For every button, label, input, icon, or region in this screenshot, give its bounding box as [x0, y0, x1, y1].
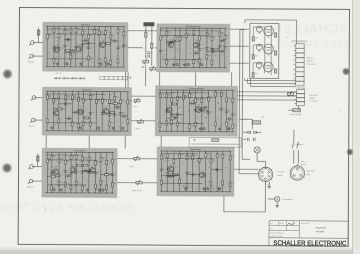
resistor R601: [252, 121, 261, 124]
wire: [38, 97, 42, 99]
capacitor C37: [108, 114, 111, 116]
resistor R95: [58, 158, 60, 162]
wire: [155, 47, 157, 49]
wire: bus: [47, 184, 86, 186]
wire: bus: [48, 33, 105, 35]
wire: branch: [229, 151, 231, 191]
resistor R66: [58, 108, 62, 110]
ground: [275, 204, 278, 207]
terminal strip X1: [293, 44, 304, 86]
capacitor C51: [200, 109, 203, 111]
wire: coupling: [76, 165, 82, 167]
resistor R13: [98, 31, 100, 35]
resistor R112: [111, 159, 113, 163]
capacitor C78 (electrolytic): [102, 189, 104, 191]
resistor R8: [75, 28, 77, 32]
wire: branch: [70, 152, 72, 192]
wire: branch: [98, 27, 100, 67]
resistor R29: [185, 33, 187, 37]
wire: [230, 28, 249, 30]
svg-text:Klangregelung I: Klangregelung I: [186, 25, 202, 28]
svg-text:Tag: Tag: [270, 223, 273, 225]
ground: [267, 185, 270, 188]
svg-text:Lautst.: Lautst.: [132, 105, 138, 108]
wire: 0V rail: [158, 130, 234, 132]
wire: coupling: [167, 176, 174, 178]
wire: [265, 161, 267, 167]
wire: branch: [110, 27, 112, 67]
wire: bus: [162, 58, 200, 60]
wire: branch: [159, 90, 161, 131]
resistor R122: [179, 154, 181, 158]
resistor R56: [101, 99, 103, 103]
label: [309, 94, 318, 103]
resistor R48: [71, 122, 73, 126]
wire: [145, 73, 147, 86]
resistor R2: [53, 28, 55, 32]
transistor Q9: [166, 107, 172, 113]
wire: [257, 131, 261, 133]
capacitor C59: [229, 117, 231, 120]
svg-text:Vorstufe I: Vorstufe I: [81, 23, 91, 26]
resistor R27: [174, 36, 176, 40]
wire: coupling: [187, 174, 199, 176]
svg-text:Netz: Netz: [301, 160, 305, 163]
wire: bus: [48, 58, 93, 60]
capacitor C30: [222, 50, 224, 53]
svg-text:Wechsel: Wechsel: [307, 58, 314, 60]
input jack Bu4: [30, 118, 37, 123]
wire: coupling: [212, 48, 220, 50]
wire: branch: [113, 92, 115, 131]
resistor R34: [206, 33, 208, 37]
wire: [37, 28, 39, 43]
wire: coupling: [65, 52, 76, 54]
capacitor C201: [147, 52, 150, 54]
resistor R134: [229, 156, 231, 160]
wire: branch: [123, 27, 125, 67]
capacitor C80: [160, 169, 163, 171]
wire: branch: [46, 152, 48, 192]
svg-text:SCHALLER ELECTRONIC: SCHALLER ELECTRONIC: [273, 240, 346, 247]
wire: branch: [173, 151, 175, 191]
potentiometer P401: [134, 156, 140, 161]
capacitor C31 (electrolytic): [176, 63, 178, 65]
wire: mid rail: [45, 154, 82, 156]
ground: [172, 63, 175, 66]
resistor R120: [166, 154, 168, 158]
svg-text:Sicherung 0,8A: Sicherung 0,8A: [289, 113, 301, 116]
value labels: [162, 33, 224, 64]
capacitor C15: [67, 38, 69, 41]
resistor R106: [95, 161, 97, 165]
resistor R111: [106, 185, 108, 189]
resistor R101: [75, 155, 77, 159]
resistor R25: [166, 32, 168, 36]
capacitor C43: [65, 102, 67, 105]
wire: coupling: [121, 115, 128, 117]
capacitor C16 (electrolytic): [100, 63, 102, 65]
module board: Klangregelung I: [157, 24, 230, 72]
wire: coupling: [174, 174, 180, 176]
wire: [127, 72, 129, 88]
resistor R76: [189, 94, 191, 98]
input jack Bu3: [31, 96, 38, 101]
wire: [253, 62, 263, 64]
wire: coupling: [167, 42, 175, 44]
potentiometer P402: [136, 180, 142, 185]
capacitor C33 (electrolytic): [200, 63, 202, 65]
svg-text:Vorstufe II: Vorstufe II: [82, 88, 92, 91]
wire: bus: [47, 159, 97, 161]
wire: branch: [53, 91, 55, 130]
resistor R53: [89, 95, 91, 99]
svg-text:50Hz: 50Hz: [307, 174, 311, 176]
wire: [264, 26, 266, 73]
wire: branch: [81, 153, 83, 193]
resistor R26: [166, 60, 168, 64]
resistor R41: [46, 95, 48, 99]
wire: coupling: [65, 38, 71, 40]
resistor R30: [193, 30, 195, 34]
resistor R10: [88, 35, 90, 39]
capacitor C85: [192, 173, 194, 176]
wire: coupling: [220, 40, 225, 42]
wire: [268, 198, 275, 200]
resistor R114: [105, 174, 109, 176]
wire: branch: [166, 90, 168, 131]
resistor R93: [51, 156, 53, 160]
wire: coupling: [202, 106, 209, 108]
svg-text:Benennung: Benennung: [301, 223, 309, 225]
resistor R31: [193, 59, 195, 63]
wire: coupling: [171, 103, 177, 105]
wire: [145, 26, 147, 58]
resistor R5: [64, 30, 66, 34]
wire: +supply rail: [160, 150, 231, 152]
wire: bus: [160, 97, 215, 99]
capacitor C91 (electrolytic): [207, 187, 209, 189]
wire: [230, 62, 249, 64]
wire: mid rail: [160, 30, 219, 32]
input jack Bu6: [28, 179, 35, 184]
capacitor C28: [170, 41, 172, 44]
module board: Vorstufe III: [42, 148, 117, 197]
resistor R37: [211, 60, 213, 64]
resistor R28: [179, 36, 181, 40]
value labels: [165, 92, 231, 126]
ground: [202, 187, 205, 190]
svg-text:Hohen Tiefen: Hohen Tiefen: [132, 190, 142, 192]
resistor R88: [232, 124, 234, 128]
wire: branch: [182, 90, 184, 131]
wire: coupling: [167, 172, 174, 174]
transistor Q1: [54, 47, 60, 53]
wire: branch: [166, 151, 168, 191]
capacitor C87: [176, 173, 178, 176]
resistor R98: [64, 182, 66, 186]
wire: [234, 168, 258, 170]
wire: branch: [166, 28, 168, 67]
wire: branch: [222, 151, 224, 191]
wire: [151, 26, 153, 58]
capacitor C8: [122, 45, 125, 47]
wire: 0V rail: [46, 66, 125, 68]
capacitor C41: [75, 111, 77, 114]
wire: [191, 143, 239, 145]
module board: Vorstufe II: [42, 87, 131, 136]
svg-text:Lautst.: Lautst.: [129, 165, 135, 168]
svg-text:zur Klangregelung: zur Klangregelung: [291, 40, 306, 43]
svg-text:Mischstufe: Mischstufe: [190, 148, 201, 151]
wire: coupling: [72, 111, 78, 113]
resistor R54: [89, 122, 91, 126]
wire: [224, 211, 265, 213]
capacitor C22: [210, 48, 213, 50]
wire: [125, 72, 127, 88]
resistor R128: [205, 153, 207, 157]
wire: branch: [176, 90, 178, 131]
capacitor C18 (electrolytic): [66, 63, 68, 65]
capacitor C56: [204, 106, 206, 109]
wire: coupling: [65, 175, 71, 177]
capacitor C54: [225, 111, 228, 113]
label: [307, 58, 316, 66]
wire: 0V rail: [45, 192, 114, 194]
potentiometer P202: [150, 66, 156, 71]
resistor R102: [75, 181, 77, 185]
wire: [37, 154, 39, 167]
resistor R132: [222, 154, 224, 158]
wire: [268, 182, 270, 185]
wire: coupling: [220, 50, 225, 52]
ground: [198, 127, 201, 130]
wire: [45, 135, 47, 148]
resistor R107: [94, 184, 96, 188]
wire: coupling: [161, 175, 173, 177]
capacitor C73: [111, 174, 114, 176]
connector socket Bu7 (DIN): [258, 167, 272, 183]
wire: coupling: [207, 51, 220, 53]
glow lamp La2: [275, 196, 280, 201]
resistor R142: [275, 51, 277, 55]
resistor R75: [182, 95, 184, 99]
capacitor C82: [216, 169, 219, 171]
wire: [288, 109, 292, 111]
wire: branch: [224, 28, 226, 67]
wire: coupling: [82, 170, 89, 172]
resistor R74: [177, 122, 179, 126]
wire: branch: [53, 26, 55, 66]
wire: [239, 173, 258, 175]
capacitor C12: [88, 42, 90, 45]
wire: branch: [111, 153, 113, 193]
wire: branch: [211, 28, 213, 67]
diode D601: [248, 131, 251, 134]
resistor R1: [47, 34, 49, 38]
resistor R104: [81, 186, 83, 190]
wire: branch: [64, 26, 66, 66]
capacitor C84: [216, 168, 218, 171]
resistor R59: [114, 97, 116, 101]
resistor R135: [229, 183, 231, 187]
resistor R22: [66, 49, 70, 51]
resistor R33: [198, 59, 200, 63]
value labels: [47, 93, 123, 128]
wire: coupling: [59, 103, 72, 105]
capacitor C55: [231, 114, 234, 116]
transistor Q2: [76, 46, 82, 52]
wire: bus: [162, 182, 203, 184]
indicator lamp La1: [254, 147, 260, 153]
resistor R9: [82, 31, 84, 35]
resistor R136: [168, 172, 172, 174]
resistor R73: [177, 96, 179, 100]
ground: [98, 188, 101, 191]
svg-text:Mikrofon: Mikrofon: [27, 185, 34, 188]
wire: branch: [219, 28, 221, 67]
resistor R19: [117, 29, 119, 33]
wire: branch: [174, 28, 176, 67]
svg-text:Gez.: Gez.: [270, 228, 274, 230]
capacitor C7: [116, 47, 119, 49]
wire: branch: [179, 28, 181, 67]
wire: branch: [46, 26, 48, 66]
wire: [242, 158, 250, 160]
wire: 0V rail: [160, 66, 227, 68]
resistor R79: [194, 122, 196, 126]
transistor Q5: [194, 42, 200, 48]
wire: coupling: [167, 40, 180, 42]
wire: [35, 180, 42, 182]
module board: Klangregelung II: [155, 86, 237, 136]
resistor R97: [64, 160, 66, 164]
capacitor C9: [70, 51, 72, 54]
transistor Q10: [196, 107, 202, 113]
wire: branch: [94, 153, 96, 193]
resistor R42: [46, 119, 48, 123]
ground: [184, 187, 187, 190]
resistor R86: [226, 122, 228, 126]
fuse Si1: [293, 109, 301, 112]
wire: +supply rail: [160, 27, 227, 29]
resistor R201: [145, 32, 147, 37]
wire: [37, 119, 42, 121]
resistor R71: [171, 98, 173, 102]
resistor R20: [117, 59, 119, 63]
capacitor C601: [247, 138, 249, 141]
wire: branch: [127, 92, 129, 131]
resistor R51: [82, 99, 84, 103]
transistor Q7: [78, 109, 84, 115]
ground: [79, 62, 82, 65]
wire: branch: [95, 92, 97, 131]
wire: [253, 26, 263, 28]
resistor R125: [186, 183, 188, 187]
wire: [251, 78, 296, 86]
wire: coupling: [66, 117, 73, 119]
capacitor C3: [63, 45, 66, 47]
resistor R49: [78, 97, 80, 101]
resistor R117: [51, 175, 55, 177]
wire: [231, 72, 233, 86]
wire: [243, 131, 247, 133]
svg-text:Anschl.: Anschl.: [278, 174, 284, 177]
wire: branch: [81, 27, 83, 67]
resistor R105: [88, 157, 90, 161]
wire: branch: [207, 90, 209, 131]
capacitor C1: [52, 46, 55, 48]
transistor Q12: [71, 167, 77, 173]
wire: coupling: [101, 174, 112, 176]
transistor Q14: [168, 166, 174, 172]
wire: coupling: [190, 102, 196, 104]
wire: [252, 63, 254, 73]
wire: branch: [70, 26, 72, 66]
capacitor C79 (electrolytic): [60, 189, 62, 191]
potentiometer P501: [287, 91, 293, 96]
resistor R55: [95, 99, 97, 103]
wire: branch: [71, 92, 73, 131]
resistor R127: [198, 158, 200, 162]
capacitor C32 (electrolytic): [187, 63, 189, 65]
capacitor C57: [177, 113, 179, 116]
wire: [252, 45, 254, 55]
capacitor C11: [73, 49, 75, 52]
wire: [159, 72, 161, 85]
wire: coupling: [115, 106, 121, 108]
wire: branch: [206, 28, 208, 67]
transistor Q15: [200, 172, 206, 178]
capacitor C49: [170, 114, 173, 116]
wire: +supply rail: [46, 90, 129, 92]
transistor Q11: [53, 169, 59, 175]
wire: bus: [47, 98, 107, 100]
wire: branch: [186, 151, 188, 191]
input jack Bu2: [28, 54, 35, 59]
wire: branch: [117, 27, 119, 67]
resistor R124: [186, 155, 188, 159]
wire: branch: [210, 151, 212, 191]
capacitor C26: [212, 50, 214, 53]
wire: coupling: [211, 168, 223, 170]
svg-text:4.9.70: 4.9.70: [279, 223, 284, 225]
capacitor C89 (electrolytic): [218, 188, 220, 190]
capacitor C38: [113, 114, 116, 116]
capacitor C69: [81, 172, 84, 174]
wire: branch: [75, 153, 77, 193]
wire: coupling: [47, 175, 59, 177]
transistor Q13: [89, 167, 95, 173]
wire: [223, 196, 225, 211]
capacitor C19: [159, 50, 162, 52]
tube V3a (power pentode): [263, 62, 273, 74]
wire: branch: [51, 152, 53, 192]
resistor R129: [210, 159, 212, 163]
svg-text:0,1A Netz: 0,1A Netz: [296, 143, 303, 146]
svg-text:Anschl.: Anschl.: [301, 163, 307, 166]
resistor R96: [58, 181, 60, 185]
wire: branch: [232, 90, 234, 131]
capacitor C21: [205, 48, 208, 50]
resistor R84: [220, 92, 222, 96]
wire: branch: [108, 92, 110, 131]
resistor R126: [192, 155, 194, 159]
resistor R50: [77, 124, 79, 128]
tube V1a (power pentode): [264, 26, 274, 38]
wire: [293, 130, 295, 142]
capacitor C5: [81, 44, 84, 46]
